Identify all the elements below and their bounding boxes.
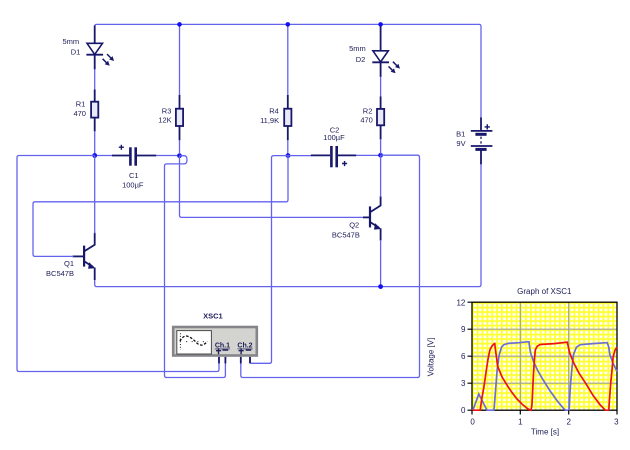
wire node C to C2 [288, 155, 312, 157]
svg-text:3: 3 [614, 418, 619, 427]
svg-text:Time [s]: Time [s] [531, 428, 559, 437]
resistor R1 [73, 90, 98, 132]
svg-text:R3: R3 [162, 106, 172, 115]
svg-text:Ch.1: Ch.1 [215, 343, 230, 350]
svg-text:R4: R4 [269, 107, 279, 116]
svg-text:0: 0 [470, 418, 475, 427]
wire R3 bottom to node B [179, 140, 181, 154]
svg-text:Voltage [V]: Voltage [V] [427, 338, 436, 377]
oscilloscope XSC1 [173, 311, 257, 363]
wire node A to scope Ch.1 plus [17, 156, 219, 372]
svg-text:BC547B: BC547B [46, 269, 74, 278]
battery B1 [456, 117, 492, 164]
svg-text:Q2: Q2 [349, 220, 359, 229]
LED D2 [349, 27, 400, 78]
resistor R4 [260, 95, 291, 140]
wire node A row to C1 [95, 155, 113, 157]
svg-text:R2: R2 [363, 106, 373, 115]
svg-text:Graph of XSC1: Graph of XSC1 [517, 287, 572, 296]
wire R4 top feed [287, 24, 289, 96]
LED D1 [62, 26, 114, 70]
svg-text:BC547B: BC547B [332, 230, 360, 239]
node top rail / R3 [177, 22, 182, 27]
svg-text:9: 9 [461, 325, 466, 334]
trace Ch.1 red [472, 342, 617, 410]
svg-text:0: 0 [461, 406, 466, 415]
wire R4 bottom to node C [287, 140, 289, 154]
wire C2 to node D [356, 154, 381, 156]
svg-text:6: 6 [461, 352, 466, 361]
svg-text:5mm: 5mm [62, 37, 79, 46]
svg-text:12: 12 [456, 298, 465, 307]
x axis ticks and labels [472, 410, 617, 414]
svg-text:1: 1 [518, 418, 523, 427]
resistor R2 [360, 97, 384, 140]
svg-text:Ch.2: Ch.2 [237, 343, 252, 350]
node top rail / R4 [286, 22, 291, 27]
svg-text:3: 3 [461, 379, 466, 388]
wire D2 to R2 [380, 77, 382, 99]
wire node B to Q2 base (via R3 column) [180, 156, 364, 218]
wire node B to scope Ch.1 minus (with loop) [165, 156, 226, 378]
svg-text:D1: D1 [71, 48, 81, 57]
wire R1 to node A [94, 131, 96, 154]
graph of XSC1 [427, 287, 620, 437]
wire R2 bottom to node D [380, 139, 382, 154]
wire Q1 collector to node A [94, 156, 96, 234]
wire C1 to node B [156, 155, 180, 157]
svg-text:XSC1: XSC1 [203, 311, 223, 320]
wire node D to scope Ch.2 plus [241, 155, 420, 377]
svg-text:9V: 9V [456, 139, 465, 148]
wire R3 top feed [179, 24, 181, 96]
transistor Q2 [332, 196, 381, 240]
capacitor C1 [112, 145, 156, 190]
wire Q2 emitter to ground rail [380, 240, 382, 287]
svg-text:R1: R1 [76, 100, 86, 109]
wire D1 to R1 [94, 69, 96, 91]
svg-text:C1: C1 [129, 171, 139, 180]
svg-text:470: 470 [73, 109, 86, 118]
wire Q2 collector to node D [380, 155, 382, 197]
y axis ticks and labels [468, 302, 473, 410]
node E: Q2 emitter / ground rail [378, 284, 383, 289]
svg-text:Q1: Q1 [64, 259, 74, 268]
trace Ch.2 blue [472, 342, 617, 410]
svg-text:5mm: 5mm [349, 44, 366, 53]
transistor Q1 [46, 233, 95, 280]
svg-text:B1: B1 [456, 130, 465, 139]
svg-text:12K: 12K [158, 116, 171, 125]
node top rail / D2 [378, 22, 383, 27]
node C: R4/C2 junction [286, 153, 291, 158]
resistor R3 [158, 95, 183, 140]
node B: C1/R3 junction [177, 153, 182, 158]
wire D2 top feed [380, 24, 382, 29]
capacitor C2 [311, 125, 356, 167]
svg-text:100µF: 100µF [323, 133, 345, 142]
svg-text:11,9K: 11,9K [260, 116, 279, 125]
svg-text:100µF: 100µF [122, 181, 144, 190]
wire battery bottom to ground rail [95, 164, 481, 287]
svg-text:2: 2 [566, 418, 571, 427]
svg-text:D2: D2 [356, 55, 366, 64]
node A: R1/C1/Q1/scope junction [92, 153, 97, 158]
wire node C to scope Ch.2 minus [250, 156, 288, 364]
svg-text:470: 470 [360, 116, 373, 125]
wire node C to Q1 base cross-coupling [33, 156, 288, 257]
node D: C2/R2/Q2 junction [378, 153, 383, 158]
wire top power rail [95, 24, 481, 117]
